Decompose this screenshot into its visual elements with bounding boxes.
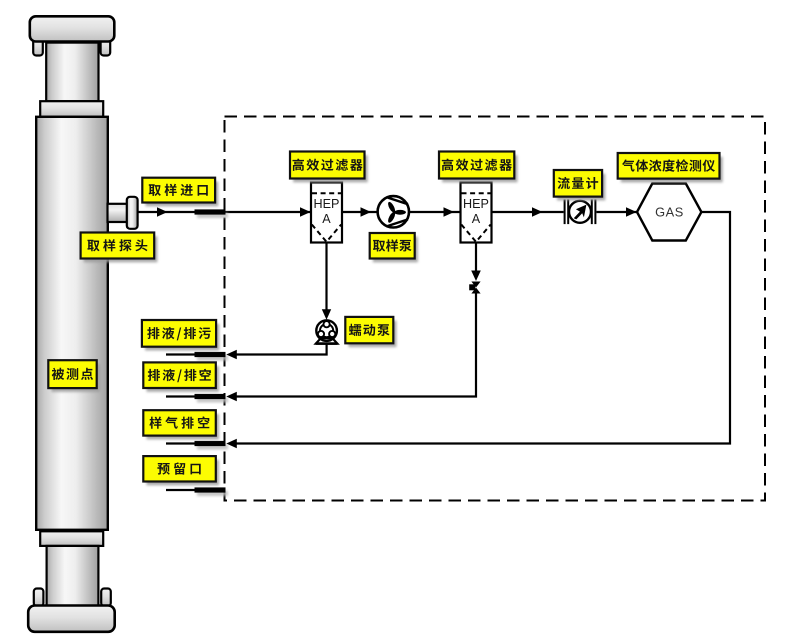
- flow meter: flange bars: [564, 200, 566, 225]
- arrowhead into sampling pump: [361, 207, 372, 217]
- svg-text:A: A: [472, 212, 481, 226]
- label 预留口: yellow box: [143, 456, 216, 481]
- flow meter: circle: [569, 201, 591, 223]
- vessel top flange: [40, 101, 103, 117]
- label 被测点: text "被测点": [52, 368, 93, 380]
- wire: peristaltic pump to drain port: [236, 344, 327, 355]
- port 排液/排空: thick wall stub shadow: [197, 397, 228, 402]
- drain valve handle: [469, 284, 475, 290]
- port 排液/排空: outside stub line: [166, 395, 195, 397]
- port 预留口: outside stub line: [166, 489, 195, 491]
- sampling probe nozzle flange: [127, 197, 138, 229]
- label 样气排空: shadow: [147, 414, 220, 439]
- label 排液/排污: shadow: [145, 324, 219, 351]
- label 高效过滤器2: shadow: [442, 155, 517, 182]
- peristaltic pump: rollers: [324, 321, 330, 327]
- label 排液/排空: yellow box: [143, 362, 216, 388]
- sampling pump: propeller: [387, 201, 406, 224]
- port 预留口: thick wall stub: [195, 487, 226, 492]
- arrowhead into HEPA1: [300, 207, 311, 217]
- label 高效过滤器2: text "高效过滤器": [442, 159, 512, 171]
- port 样气排空: left arrowhead: [226, 439, 237, 448]
- wire: HEPA1 drain down: [325, 243, 327, 315]
- label 取样探头: shadow: [84, 236, 158, 262]
- wire: flow meter to gas analyzer: [597, 211, 638, 213]
- label 高效过滤器2: yellow box: [439, 152, 514, 179]
- wire: valve to drain/vent port: [236, 294, 476, 397]
- HEPA filter 1: body: [311, 183, 342, 243]
- port 排液/排污: thick wall stub: [195, 352, 226, 357]
- label 高效过滤器1: yellow box: [290, 152, 365, 179]
- sampling pump: upper chord: [388, 198, 408, 205]
- port 排液/排污: left arrowhead: [226, 350, 237, 359]
- HEPA filter 2: body: [461, 183, 492, 243]
- HEPA filter 1: inner dashed separator: [312, 192, 341, 194]
- label 取样进口: text "取样进口": [149, 184, 208, 196]
- peristaltic pump: circle: [316, 320, 337, 341]
- wire: sampling pump to HEPA2: [409, 211, 461, 213]
- svg-text:HEP: HEP: [463, 197, 489, 211]
- port 排液/排空: left arrowhead: [226, 392, 237, 401]
- label 取样泵: yellow box: [370, 233, 415, 259]
- svg-text:GAS: GAS: [655, 204, 684, 219]
- label 预留口: shadow: [147, 460, 220, 485]
- label 取样进口: yellow box: [142, 178, 215, 203]
- label 预留口: text "预留口": [157, 462, 200, 474]
- label 被测点: shadow: [52, 364, 100, 392]
- peristaltic pump: bottom chord: [319, 337, 334, 339]
- svg-text:HEP: HEP: [314, 197, 340, 211]
- label 气体浓度检测仪: text "气体浓度检测仪": [622, 159, 715, 171]
- label 取样探头: text "取样探头": [87, 239, 147, 251]
- wire: HEPA2 to flow meter: [492, 211, 564, 213]
- wire: HEPA1 to sampling pump: [342, 211, 379, 213]
- gas analyzer: hexagon: [637, 184, 701, 241]
- vessel bottom cap: [28, 606, 115, 632]
- label 排液/排空: shadow: [147, 366, 220, 392]
- label 高效过滤器1: shadow: [293, 155, 368, 182]
- svg-text:A: A: [322, 212, 331, 226]
- label 流量计: shadow: [557, 174, 605, 201]
- label 气体浓度检测仪: shadow: [621, 157, 723, 183]
- port 预留口: thick wall stub shadow: [197, 491, 228, 496]
- port 排液/排污: thick wall stub shadow: [197, 355, 228, 360]
- label 流量计: text "流量计": [558, 177, 599, 189]
- vessel top cap: [30, 16, 115, 41]
- sampling probe nozzle pipe: [108, 204, 129, 222]
- arrowhead into HEPA2: [444, 207, 455, 217]
- HEPA filter 2: dashed funnel: [461, 225, 490, 242]
- inlet wall stub shadow: [197, 213, 228, 218]
- wire: gas analyzer outlet to vent: [236, 212, 730, 444]
- label 排液/排污: yellow box: [142, 320, 216, 347]
- arrowhead into flow meter: [532, 207, 543, 217]
- vessel top pegs: [33, 38, 43, 56]
- arrowhead into peristaltic pump: [322, 309, 331, 320]
- port 排液/排污: outside stub line: [166, 353, 195, 355]
- arrowhead on inlet line: [157, 207, 168, 217]
- label 排液/排污: text "排液/排污": [147, 327, 210, 341]
- label 气体浓度检测仪: yellow box: [618, 153, 720, 179]
- label 取样进口: shadow: [146, 182, 219, 207]
- label 取样泵: shadow: [373, 237, 418, 262]
- arrowhead into gas analyzer: [626, 207, 637, 217]
- sampling pump: lower chord: [388, 219, 408, 226]
- label 蠕动泵: shadow: [349, 321, 397, 347]
- label 取样探头: yellow box: [81, 233, 155, 259]
- label 蠕动泵: yellow box: [345, 317, 393, 343]
- sampling pump: circle: [378, 196, 409, 227]
- port 样气排空: thick wall stub: [195, 441, 226, 446]
- label 蠕动泵: text "蠕动泵": [349, 324, 390, 336]
- port 样气排空: outside stub line: [166, 442, 195, 444]
- label 高效过滤器1: text "高效过滤器": [293, 159, 363, 171]
- port 排液/排空: thick wall stub: [195, 394, 226, 399]
- inlet thick wall stub: [195, 209, 226, 214]
- HEPA filter 2: inner dashed separator: [462, 192, 491, 194]
- vessel top neck: [46, 43, 98, 102]
- drain valve (bowtie): [471, 282, 480, 294]
- label 排液/排空: text "排液/排空": [148, 369, 211, 383]
- peristaltic pump: stand: [316, 339, 338, 344]
- label 取样泵: text "取样泵": [373, 239, 412, 251]
- label 流量计: yellow box: [554, 170, 602, 197]
- vessel bottom pegs: [34, 589, 44, 607]
- vessel bottom flange: [40, 531, 103, 546]
- peristaltic pump: inner tube arc: [320, 324, 333, 337]
- dashed enclosure boundary: [225, 117, 766, 501]
- wire: HEPA2 drain down: [475, 243, 477, 277]
- vessel bottom neck: [47, 546, 99, 607]
- wire: nozzle flange to HEPA1: [138, 211, 312, 213]
- label 被测点: yellow box: [48, 360, 96, 388]
- flow meter: indicator arrow: [574, 205, 587, 220]
- arrowhead above valve: [471, 271, 481, 282]
- label 样气排空: yellow box: [143, 410, 216, 435]
- label 样气排空: text "样气排空": [149, 416, 209, 428]
- vessel main body (stack): [36, 117, 108, 530]
- port 样气排空: thick wall stub shadow: [197, 444, 228, 449]
- HEPA filter 1: dashed funnel: [312, 225, 341, 242]
